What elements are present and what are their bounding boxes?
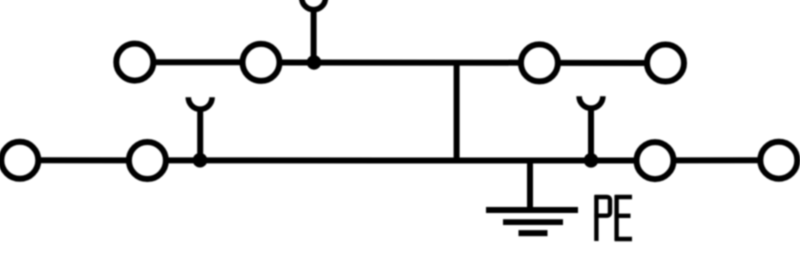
wire (stem from top junction up to test socket) <box>311 8 317 65</box>
terminal contact 6 (bottom row, second circle) <box>129 142 166 179</box>
wire (stem from left bottom junction up to test socket) <box>197 107 203 160</box>
label PE (net name, letter E) <box>615 196 632 241</box>
wire (bottom rail, contact 5 to contact 6) <box>38 157 129 163</box>
junction (bottom rail, right test-socket node) <box>584 153 599 168</box>
test socket (plug-in tap, right, above bottom rail) <box>579 96 603 108</box>
wire (bottom rail, PE bus from contact 6 to contact 7) <box>165 157 637 163</box>
terminal contact 8 (bottom row, rightmost circle at edge) <box>760 142 797 179</box>
terminal contact 5 (bottom row, leftmost circle at edge) <box>1 142 38 179</box>
terminal contact 7 (bottom row, third circle) <box>637 142 674 179</box>
junction (bottom rail, left test-socket node) <box>193 153 208 168</box>
wire (vertical link between top rail and bottom rail) <box>454 63 460 161</box>
test socket (plug-in tap, top edge, partially clipped) <box>302 0 326 10</box>
wire (bottom rail, contact 7 to contact 8) <box>673 157 761 163</box>
terminal contact 4 (top row, fourth circle) <box>647 45 684 82</box>
ground (PE earth symbol, top bar) <box>486 207 578 213</box>
wire (top rail, contact 3 to contact 4) <box>558 60 647 66</box>
terminal contact 3 (top row, third circle) <box>521 44 558 81</box>
terminal contact 2 (top row, second circle) <box>243 44 280 81</box>
wire (top rail, contact 1 to contact 2) <box>153 59 243 65</box>
test socket (plug-in tap, left, above bottom rail) <box>188 97 212 109</box>
ground (PE earth symbol, bottom bar) <box>519 230 548 236</box>
label PE (net name, letter P) <box>594 196 610 242</box>
ground (PE earth symbol, middle bar) <box>503 219 563 225</box>
terminal contact 1 (top row, first circle) <box>116 44 153 81</box>
wire (stem from right bottom junction up to test socket) <box>588 107 594 160</box>
wire (stem from PE bus down to earth symbol) <box>527 161 533 212</box>
junction (top rail cross-connection node) <box>307 55 322 70</box>
wire (top rail, contact 2 to contact 3 through cross-connection node) <box>279 60 521 66</box>
